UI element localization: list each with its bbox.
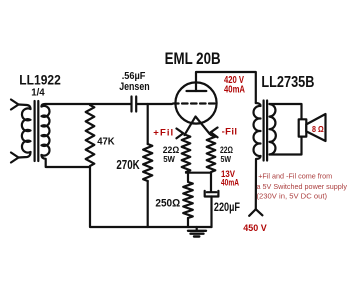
svg-text:5W: 5W [221, 154, 232, 164]
node 450V arrow [249, 209, 262, 216]
speaker LS1 horn [306, 114, 325, 141]
wire: rail to 220uF [210, 173, 212, 191]
transformer T1 core [35, 101, 39, 161]
wire: secondary bottom elbow to ground bus [42, 155, 212, 227]
transformer T1 LL1922 primary winding [22, 108, 31, 152]
resistor R4 250ohm [183, 182, 193, 218]
svg-text:450 V: 450 V [243, 223, 267, 234]
svg-text:270K: 270K [116, 158, 139, 172]
wire: secondary top to coupling cap [42, 104, 131, 107]
wire: rail to 250ohm [187, 173, 189, 181]
resistor R3 22ohm 5W right [207, 135, 216, 172]
svg-text:40mA: 40mA [224, 85, 245, 96]
node input bottom arrow [11, 153, 19, 163]
node +Fil arrow [177, 129, 184, 139]
transformer T1 secondary winding [42, 106, 50, 156]
svg-text:1/4: 1/4 [31, 86, 45, 98]
svg-text:8 Ω: 8 Ω [312, 125, 324, 134]
transformer T2 LL2735B primary winding [254, 103, 261, 156]
wire: cathode rail [186, 172, 211, 174]
resistor 47K [86, 105, 95, 166]
wire: input top lead [19, 105, 31, 110]
svg-text:LL2735B: LL2735B [261, 74, 314, 91]
wire: primary bottom to 450V [256, 156, 261, 209]
tube grid dashed [173, 102, 216, 104]
svg-text:-Fil: -Fil [222, 127, 237, 138]
transformer T2 core [264, 101, 268, 161]
note: filament supply text [257, 172, 348, 201]
resistor 270K [143, 144, 152, 181]
svg-text:40mA: 40mA [221, 178, 239, 189]
capacitor C2 220uF plate [207, 191, 217, 193]
tube filament [185, 117, 210, 136]
wire: cap to grid [137, 103, 172, 105]
svg-text:47K: 47K [97, 136, 115, 148]
node input top arrow [11, 100, 19, 110]
wire: speaker loop [270, 104, 302, 155]
tube plate [187, 90, 207, 92]
svg-text:EML 20B: EML 20B [165, 49, 221, 68]
wire: 250ohm to bus [187, 218, 189, 227]
transformer T2 secondary winding [270, 104, 276, 155]
svg-text:+Fil: +Fil [153, 128, 173, 139]
svg-text:220µF: 220µF [214, 202, 240, 214]
svg-text:a 5V Switched power supply: a 5V Switched power supply [257, 182, 348, 191]
wire: 220uF to bus [210, 197, 212, 228]
svg-text:5W: 5W [163, 154, 176, 164]
tube U1 EML 20B envelope [175, 82, 216, 123]
capacitor C1 .56uF Jensen [132, 97, 137, 112]
svg-text:LL1922: LL1922 [19, 72, 61, 88]
svg-text:250Ω: 250Ω [155, 197, 180, 209]
ground [188, 227, 206, 237]
resistor R2 22ohm 5W left [182, 135, 191, 172]
svg-text:+Fil and -Fil come from: +Fil and -Fil come from [258, 172, 332, 181]
wire: input bottom lead [19, 152, 31, 158]
svg-text:Jensen: Jensen [119, 81, 150, 93]
speaker LS1 body [299, 119, 307, 136]
wire: 270K bottom to bus [147, 181, 149, 227]
node -Fil arrow [211, 128, 218, 138]
wire: plate lead to OPT [196, 72, 256, 103]
svg-text:(230V in, 5V DC out): (230V in, 5V DC out) [257, 192, 328, 201]
capacitor C2 220uF cup [205, 191, 219, 197]
wire: grid node drop to 270K [147, 104, 149, 144]
